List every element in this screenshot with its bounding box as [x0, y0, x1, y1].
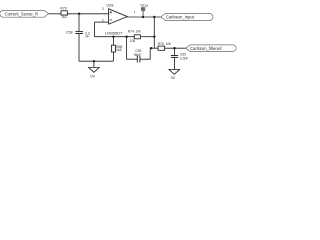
bottom rail wire — [79, 60, 113, 62]
stage 2 rail wire — [150, 47, 158, 49]
junction R68 top — [112, 36, 114, 38]
svg-text:C58: C58 — [66, 31, 73, 35]
wire C59 right lead — [140, 48, 150, 59]
svg-text:Carlsson_Input: Carlsson_Input — [166, 15, 195, 20]
wire inverting input — [95, 21, 109, 23]
wire C59 left lead — [127, 37, 138, 60]
svg-text:1k5: 1k5 — [116, 48, 122, 52]
svg-text:10k: 10k — [130, 39, 136, 43]
wire C60 top lead — [174, 48, 176, 55]
junction C59 left lead on feedback rail — [125, 36, 127, 38]
wire output down to feedback rail and stage 2 — [153, 17, 155, 48]
wire R74 to output vertical — [141, 36, 154, 38]
junction stage 2 left — [150, 47, 152, 49]
svg-text:39pF: 39pF — [134, 53, 142, 57]
svg-text:0V: 0V — [171, 76, 176, 80]
terminal port Carlsson_filtered — [186, 45, 236, 52]
svg-text:Carlsson_filtered: Carlsson_filtered — [190, 46, 222, 51]
wire R70 to node A — [67, 13, 108, 15]
junction ground tap — [93, 60, 95, 62]
svg-text:Current_Sense_R: Current_Sense_R — [5, 12, 39, 17]
resistor R68 — [111, 45, 115, 52]
junction TP12 on output wire — [142, 16, 144, 18]
terminal port Current_Sense_R — [0, 10, 49, 17]
svg-text:0V: 0V — [90, 75, 95, 79]
svg-text:U28: U28 — [107, 4, 114, 8]
junction feedback tap on output wire — [153, 16, 155, 18]
node A junction — [78, 13, 80, 15]
op-amp minus sign — [110, 19, 112, 21]
op-amp U28 — [109, 9, 128, 24]
junction C60 tap — [173, 47, 175, 49]
feedback rail wire — [95, 36, 135, 38]
svg-text:TP12: TP12 — [140, 4, 148, 8]
junction feedback rail and output vertical — [153, 36, 155, 38]
terminal port Carlsson_Input — [161, 14, 213, 21]
wire R68 to bottom rail — [112, 52, 114, 61]
capacitor C59 — [137, 56, 140, 63]
capacitor C58 — [75, 32, 83, 34]
wire C60 to ground — [174, 57, 176, 69]
resistor R76 — [158, 46, 165, 50]
op-amp plus sign — [110, 11, 112, 13]
svg-text:3.3nF: 3.3nF — [180, 57, 189, 61]
svg-text:10k: 10k — [166, 42, 172, 46]
svg-text:R70: R70 — [60, 7, 67, 11]
svg-text:R76: R76 — [158, 42, 164, 46]
ground symbol right — [169, 70, 180, 75]
wire R76 to port — [165, 47, 186, 49]
capacitor C60 — [171, 56, 178, 58]
wire C58 down to bottom rail — [78, 34, 80, 62]
wire op-amp output — [127, 16, 161, 18]
ground symbol left — [89, 61, 100, 72]
svg-text:1k2: 1k2 — [61, 15, 67, 19]
wire port to R70 — [49, 13, 61, 15]
svg-text:LM358DT: LM358DT — [105, 30, 123, 35]
wire inverting input down to feedback rail — [94, 22, 96, 37]
svg-text:10k: 10k — [135, 29, 141, 33]
test point TP12 — [141, 7, 145, 17]
wire down to R68 — [112, 37, 114, 46]
svg-text:R74: R74 — [128, 29, 134, 33]
wire node A down to C58 — [78, 14, 80, 32]
svg-text:1: 1 — [134, 10, 136, 14]
resistor R74 — [134, 35, 140, 39]
svg-text:3: 3 — [102, 7, 104, 11]
resistor R70 — [61, 11, 67, 15]
svg-text:nF: nF — [86, 34, 90, 38]
